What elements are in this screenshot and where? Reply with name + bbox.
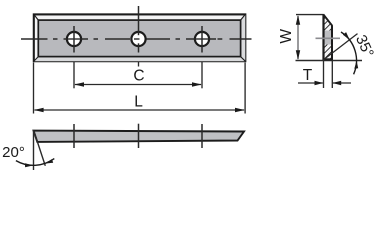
side view strip bbox=[34, 131, 245, 142]
section body: hatch top bbox=[324, 16, 331, 31]
C dimension line bbox=[75, 84, 201, 86]
section: bottom reference line bbox=[296, 60, 363, 62]
T extension line left bbox=[323, 61, 325, 88]
20deg slant edge line bbox=[34, 130, 46, 166]
L dimension extension line right bbox=[244, 63, 246, 114]
L dimension extension line left bbox=[33, 63, 35, 114]
35deg slant ray bbox=[323, 34, 358, 61]
L dimension line bbox=[35, 109, 245, 111]
strip tick 1 bbox=[73, 124, 75, 148]
section body: hatch bottom bbox=[324, 45, 331, 59]
svg-text:L: L bbox=[134, 94, 143, 111]
section left edge bbox=[322, 15, 324, 60]
strip tick 3 bbox=[201, 124, 203, 148]
hole 1 crosshair bbox=[73, 26, 75, 53]
strip tick 2 bbox=[138, 124, 140, 148]
T dimension line bbox=[298, 82, 323, 84]
svg-text:20°: 20° bbox=[2, 144, 25, 161]
20deg dimension arc bbox=[16, 159, 54, 166]
insert body top view: outer slab bbox=[34, 14, 246, 61]
svg-text:C: C bbox=[133, 67, 144, 84]
hole 3 crosshair bbox=[201, 26, 203, 53]
hole 1 bbox=[67, 32, 81, 46]
W dimension line bbox=[297, 16, 299, 59]
section right edge bbox=[331, 25, 333, 60]
35deg dimension arc bbox=[341, 32, 357, 74]
svg-text:T: T bbox=[303, 67, 313, 84]
svg-text:W: W bbox=[278, 29, 295, 44]
C dimension extension line right bbox=[201, 62, 203, 89]
insert body: face bbox=[38, 20, 240, 57]
hole 2 crosshair bbox=[138, 6, 140, 35]
section body: hole band bbox=[324, 31, 331, 45]
C dimension extension line left bbox=[73, 62, 75, 89]
hole 3 bbox=[195, 32, 209, 46]
horizontal dash-dot centerline bbox=[21, 38, 252, 40]
hole 2 bbox=[131, 32, 145, 46]
section: W top extension line bbox=[296, 14, 324, 16]
insert body: bottom/right chamfer band bbox=[34, 14, 246, 61]
20deg vertical reference line bbox=[33, 130, 35, 170]
section bottom edge bbox=[323, 58, 334, 60]
section gray centerline bbox=[316, 37, 341, 39]
T extension line right bbox=[331, 61, 333, 88]
section top bevel edge bbox=[323, 14, 332, 25]
hole 2 stub below plate bbox=[138, 62, 140, 67]
chamfer corner diagonals bbox=[34, 14, 39, 20]
